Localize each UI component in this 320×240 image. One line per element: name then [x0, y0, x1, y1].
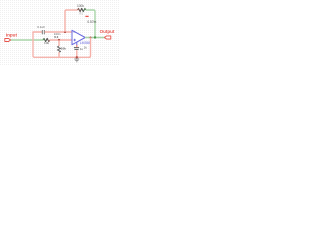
- wire: R3 bottom to ground rail: [58, 52, 60, 57]
- node junction at (65,32): [64, 31, 66, 33]
- svg-text:R1: R1: [80, 11, 84, 15]
- current annotation red tick: [85, 15, 88, 17]
- op-amp minus sign: [74, 31, 76, 33]
- svg-text:10k: 10k: [61, 47, 66, 51]
- wire: C2 to ground junction: [76, 50, 78, 57]
- wire: pink from x=33 to capacitor C1: [33, 31, 41, 33]
- resistor R2 (series input, horizontal): [43, 38, 50, 41]
- capacitor C2 plates (horizontal): [74, 47, 79, 49]
- output port P2: [105, 36, 111, 39]
- ground symbol: [74, 59, 79, 62]
- wire: capacitor to op-amp inverting input: [45, 31, 72, 33]
- wire: feedback left vertical pink: [65, 10, 67, 32]
- op-amp plus sign: [74, 39, 76, 41]
- svg-text:10k: 10k: [44, 41, 49, 45]
- node junction at (59,40): [58, 39, 60, 41]
- wire: pink vertical from output node down: [89, 38, 91, 58]
- wire: ground rail pink horizontal: [35, 56, 91, 58]
- wire: pink vertical at x=33 (cap branch to rail), crosses input wire: [33, 32, 35, 57]
- op-amp power pin blue segment: [76, 42, 78, 45]
- wire: power pin red segment to C2: [76, 45, 78, 47]
- wire: pink to op-amp + input: [50, 39, 72, 41]
- wire: input green horizontal: [10, 39, 43, 41]
- svg-text:0.1: 0.1: [54, 35, 59, 39]
- node junction ground rail: [76, 56, 78, 58]
- wire: feedback right vertical green down to output: [94, 12, 96, 38]
- svg-text:0.57m: 0.57m: [87, 20, 96, 24]
- wire: vertical down from node to R3: [58, 40, 60, 46]
- svg-text:Output: Output: [100, 29, 115, 34]
- wire: feedback top green to right corner: [86, 10, 95, 12]
- capacitor C1 plates: [41, 30, 43, 34]
- background dot grid: [0, 0, 120, 66]
- wire: feedback top pink to R1: [67, 9, 78, 11]
- svg-text:0.1uF: 0.1uF: [37, 25, 45, 29]
- svg-text:Input: Input: [6, 32, 18, 37]
- node junction at (95,37.5): [94, 36, 96, 38]
- resistor R1 (feedback, horizontal): [78, 8, 86, 11]
- wire: op-amp output green: [86, 37, 105, 39]
- node junction at (90.5,37.5): [90, 37, 92, 39]
- op-amp U1 triangle: [72, 30, 85, 44]
- svg-text:1k: 1k: [84, 45, 88, 49]
- svg-text:100k: 100k: [77, 4, 84, 8]
- resistor R3 (vertical to ground rail): [57, 46, 60, 52]
- input port P1: [5, 39, 11, 42]
